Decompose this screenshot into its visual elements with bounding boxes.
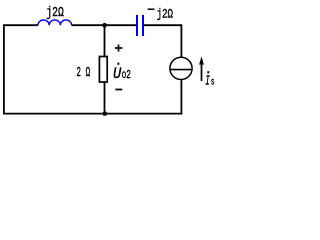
capacitor -j2Ω : left plate	[136, 15, 138, 36]
wire: bottom	[3, 113, 182, 115]
label - (voltage polarity)	[115, 89, 122, 91]
svg-text:j2Ω: j2Ω	[157, 7, 174, 22]
label İs : dot	[207, 71, 209, 73]
node junction dot (bottom)	[103, 111, 108, 116]
label + (voltage polarity)	[115, 47, 123, 49]
wire: top-left segment	[4, 24, 38, 26]
wire: right side lower	[180, 80, 182, 115]
label U̇o2 : dot	[117, 63, 119, 65]
svg-text:I: I	[205, 74, 210, 90]
inductor j2Ω	[38, 20, 72, 25]
svg-text:o2: o2	[122, 68, 131, 82]
arrow for Is	[201, 62, 203, 81]
label -j2Ω : minus sign	[148, 8, 155, 10]
wire: middle branch upper	[104, 25, 106, 56]
node junction dot (top)	[102, 23, 107, 28]
current source Is (circle)	[170, 57, 192, 79]
current source chord	[170, 69, 192, 71]
svg-text:U: U	[113, 65, 122, 83]
svg-text:2 Ω: 2 Ω	[76, 65, 90, 81]
wire: top-right segment (capacitor to top-right corner)	[144, 24, 181, 26]
svg-text:s: s	[211, 78, 215, 89]
svg-text:j2Ω: j2Ω	[46, 5, 64, 21]
wire: middle branch lower	[104, 82, 106, 114]
wire: right side upper	[180, 24, 182, 57]
capacitor -j2Ω : right plate	[142, 15, 144, 36]
wire: top-middle segment (inductor to left capacitor plate)	[72, 24, 136, 26]
wire: left side	[3, 24, 5, 114]
resistor 2Ω (box)	[99, 57, 107, 83]
